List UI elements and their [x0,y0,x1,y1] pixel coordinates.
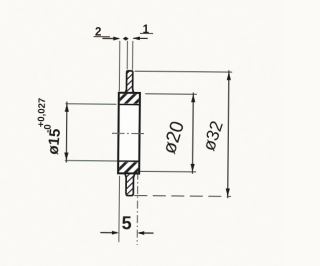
svg-text:+0,027: +0,027 [36,98,48,128]
svg-text:2: 2 [95,27,102,39]
svg-text:1: 1 [143,24,150,36]
svg-text:-0: -0 [42,124,53,133]
svg-text:5: 5 [122,213,132,233]
